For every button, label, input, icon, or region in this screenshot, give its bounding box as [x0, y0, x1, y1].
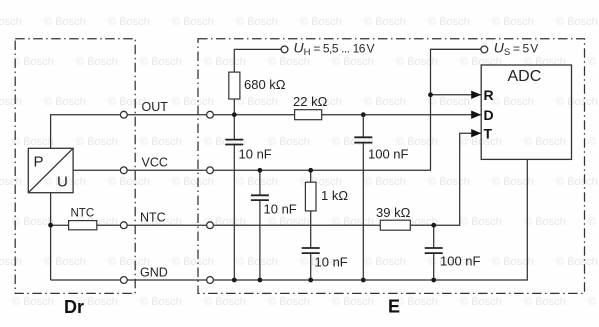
- svg-text:100 nF: 100 nF: [368, 147, 409, 162]
- wire sensor bottom lead: [50, 193, 52, 280]
- svg-text:GND: GND: [140, 265, 168, 279]
- terminal GND E: [207, 277, 214, 284]
- svg-text:10 nF: 10 nF: [239, 147, 272, 162]
- wire VCC bus: [73, 49, 481, 170]
- terminal NTC Dr: [120, 222, 127, 229]
- wire branch x=433.7 (100nF): [433, 225, 435, 248]
- wire 680k top rail to UH terminal: [233, 72, 235, 115]
- node R pin junction: [428, 92, 433, 97]
- svg-text:NTC: NTC: [71, 208, 95, 220]
- wire OUT bus: [51, 115, 295, 149]
- node NTC x433: [431, 223, 436, 228]
- resistor R1 680k: [229, 72, 240, 99]
- svg-text:E: E: [388, 297, 400, 317]
- terminal OUT Dr: [120, 111, 127, 118]
- capacitor C2 100nF: [354, 137, 372, 142]
- capacitor C1 10nF: [225, 140, 243, 145]
- node OUT x363: [361, 112, 366, 117]
- svg-text:ADC: ADC: [508, 68, 542, 85]
- svg-text:T: T: [484, 126, 493, 142]
- terminal US: [481, 46, 488, 53]
- terminal GND Dr: [120, 277, 127, 284]
- terminal circles: [120, 46, 487, 283]
- capacitor C4 10nF: [302, 248, 320, 253]
- arrowhead R: [471, 91, 481, 99]
- arrowhead D: [471, 111, 481, 119]
- svg-text:100 nF: 100 nF: [440, 254, 481, 269]
- svg-text:10 nF: 10 nF: [315, 255, 348, 270]
- node NTC sensor: [48, 223, 53, 228]
- node dots: [48, 92, 436, 282]
- terminal OUT E: [207, 111, 214, 118]
- wire branch x=310.7 (1k + 10nF): [310, 170, 312, 182]
- node GND dots: [232, 278, 237, 283]
- wire R pin: [431, 94, 482, 96]
- capacitor C3 10nF: [251, 195, 269, 200]
- terminal NTC E: [207, 222, 214, 229]
- wire branch x=260 cap leads: [259, 170, 261, 195]
- resistor R2 22k: [295, 110, 322, 120]
- resistor NTC: [69, 221, 97, 230]
- terminal VCC E: [207, 167, 214, 174]
- svg-text:R: R: [484, 87, 494, 103]
- Dr boundary box (dash-dot): [15, 39, 135, 294]
- capacitor C5 100nF: [425, 248, 443, 253]
- svg-text:NTC: NTC: [140, 210, 166, 224]
- svg-text:Dr: Dr: [64, 297, 84, 317]
- op-amp U2 ADC box: [481, 65, 571, 159]
- svg-text:VCC: VCC: [142, 156, 168, 170]
- svg-text:P: P: [34, 154, 44, 171]
- wire OUT bus right of 22k to ADC D pin: [322, 114, 482, 116]
- resistor R4 39k: [380, 220, 410, 230]
- E boundary box (dash-dot): [198, 39, 585, 294]
- svg-text:1 kΩ: 1 kΩ: [321, 188, 348, 203]
- wire US rail: [431, 48, 482, 50]
- terminal UH: [281, 46, 288, 53]
- svg-text:U: U: [57, 173, 68, 190]
- svg-text:680 kΩ: 680 kΩ: [244, 77, 286, 92]
- svg-text:D: D: [484, 107, 494, 123]
- arrowhead T: [471, 129, 481, 137]
- wire NTC bus right segment to T pin: [410, 133, 481, 225]
- svg-text:US = 5V: US = 5V: [494, 40, 539, 59]
- node VCC x260: [258, 168, 263, 173]
- wire branch x=234 cap leads: [233, 115, 235, 140]
- wire branch x=363.3 (100nF): [362, 115, 364, 138]
- node OUT x234: [232, 112, 237, 117]
- svg-text:39 kΩ: 39 kΩ: [376, 205, 411, 220]
- svg-text:10 nF: 10 nF: [264, 202, 297, 217]
- wire GND bus: [51, 159, 528, 280]
- wire NTC bus left segment: [51, 224, 381, 226]
- resistor R3 1k: [305, 182, 316, 211]
- sensor U1 P/U box: [28, 148, 73, 192]
- svg-text:OUT: OUT: [142, 100, 169, 114]
- terminal VCC Dr: [120, 167, 127, 174]
- svg-text:22 kΩ: 22 kΩ: [293, 94, 328, 109]
- node VCC x310: [308, 168, 313, 173]
